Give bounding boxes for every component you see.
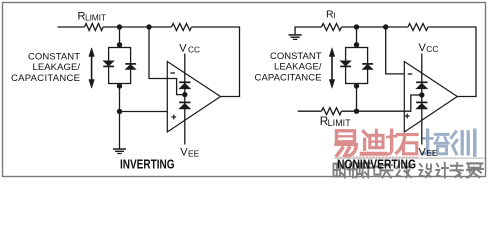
clamp diode box right	[346, 48, 368, 84]
wire bottom input line	[298, 110, 322, 112]
wire bottom line to noninv input and L up to internal node	[342, 95, 422, 111]
线	[396, 163, 411, 177]
易	[336, 131, 357, 156]
plus sign U1	[171, 115, 176, 120]
wire inverting input from node	[149, 27, 185, 95]
resistor R_LIMIT	[85, 24, 104, 31]
internal diode bottom right (from VEE)	[416, 102, 427, 109]
专	[450, 163, 463, 178]
svg-text:CAPACITANCE: CAPACITANCE	[255, 73, 322, 84]
junction clamp top right	[354, 42, 359, 47]
diode D2b clamp right (up)	[362, 64, 373, 70]
家	[467, 163, 483, 177]
ground right	[289, 35, 302, 40]
resistor R_LIMIT right	[322, 108, 342, 115]
svg-text:V: V	[179, 43, 187, 55]
op-amp U1 triangle	[167, 62, 220, 133]
junction clamp bottom	[117, 83, 122, 88]
计	[436, 163, 448, 178]
ground left	[113, 149, 126, 154]
resistor feedback right	[408, 24, 428, 31]
svg-text:CC: CC	[188, 44, 200, 54]
watermark gray characters 射频和天线设计专家	[334, 163, 484, 178]
wire ground to top line	[295, 27, 321, 34]
wire top line input	[58, 26, 85, 28]
svg-text:LEAKAGE/: LEAKAGE/	[33, 62, 81, 73]
wire inverting input from node D	[386, 27, 405, 74]
wire top line to feedback resistor	[342, 26, 409, 28]
天	[380, 165, 392, 177]
svg-text:CONSTANT: CONSTANT	[270, 51, 322, 62]
wire feedback to corner and down to output	[192, 27, 240, 97]
svg-text:LIMIT: LIMIT	[85, 12, 106, 22]
internal diode top right (to VCC)	[416, 82, 427, 89]
clamp diode box	[109, 48, 131, 84]
junction ground node	[117, 109, 122, 114]
label CONSTANT LEAKAGE/CAPACITANCE right	[255, 51, 322, 84]
svg-text:V: V	[419, 146, 427, 158]
svg-text:I: I	[333, 11, 335, 20]
diode D1a clamp left (down)	[103, 61, 114, 67]
拓	[387, 130, 417, 154]
和	[365, 163, 381, 178]
junction clamp top	[117, 42, 122, 47]
设	[419, 164, 431, 177]
junction clamp bottom right	[354, 83, 359, 88]
watermark logo red characters 易迪拓	[336, 130, 417, 156]
wire VCC to VEE vertical	[184, 54, 186, 145]
junction R_LIMIT node	[354, 109, 359, 114]
svg-text:V: V	[419, 42, 427, 54]
watermark tiny subtitle row	[336, 156, 419, 158]
svg-text:EE: EE	[188, 148, 200, 158]
wire node A down to clamp	[119, 27, 121, 48]
plus sign U2	[405, 114, 410, 119]
svg-text:LIMIT: LIMIT	[328, 118, 352, 128]
label CONSTANT LEAKAGE/CAPACITANCE left	[11, 51, 80, 84]
frame border	[3, 3, 486, 177]
wire node C down to clamp	[356, 27, 358, 48]
op-amp U2 triangle	[404, 62, 457, 133]
junction node C	[354, 24, 359, 29]
watermark underline	[334, 157, 487, 159]
svg-text:CAPACITANCE: CAPACITANCE	[11, 73, 80, 84]
svg-text:EE: EE	[426, 148, 438, 158]
wire noninv input to ground node	[120, 111, 168, 113]
diode D1b clamp right (up)	[125, 64, 136, 70]
wire clamp bottom down to ground node	[119, 84, 121, 149]
svg-text:INVERTING: INVERTING	[120, 158, 175, 172]
迪	[362, 130, 386, 154]
培	[422, 130, 448, 154]
internal diode bottom (from VEE)	[179, 102, 190, 109]
resistor R_I	[322, 24, 342, 31]
diode D2a clamp left (down)	[340, 61, 351, 67]
svg-text:CC: CC	[426, 44, 438, 54]
junction node A	[117, 24, 122, 29]
射	[334, 163, 347, 178]
arrow constant leakage left	[89, 48, 95, 88]
频	[348, 163, 363, 178]
internal diode top (to VCC)	[179, 82, 190, 89]
junction node inverting input	[146, 24, 151, 29]
wire clamp bottom to R_LIMIT node	[356, 84, 358, 112]
watermark logo blue characters 培训	[422, 130, 475, 155]
junction internal node	[182, 92, 187, 97]
svg-text:CONSTANT: CONSTANT	[28, 51, 80, 62]
arrow constant leakage right	[329, 48, 335, 88]
resistor feedback left	[172, 24, 192, 31]
junction internal node right	[419, 92, 424, 97]
wire feedback to corner and down to output	[428, 27, 476, 97]
svg-text:LEAKAGE/: LEAKAGE/	[274, 62, 322, 73]
junction node D	[383, 24, 388, 29]
minus sign U1	[170, 72, 175, 74]
svg-text:NONINVERTING: NONINVERTING	[337, 158, 416, 172]
wire top line to feedback resistor	[103, 26, 172, 28]
训	[451, 130, 474, 155]
minus sign U2	[408, 73, 413, 75]
wire VCC to VEE vertical right	[421, 54, 423, 145]
